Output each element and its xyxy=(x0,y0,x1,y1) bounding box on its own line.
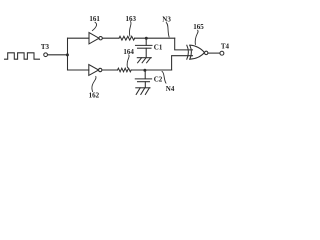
svg-text:T3: T3 xyxy=(41,43,50,51)
svg-text:164: 164 xyxy=(123,48,134,56)
svg-text:165: 165 xyxy=(193,23,204,31)
svg-text:N3: N3 xyxy=(162,16,171,24)
svg-text:161: 161 xyxy=(89,15,100,23)
svg-text:T4: T4 xyxy=(221,42,230,50)
svg-text:162: 162 xyxy=(89,91,100,99)
svg-text:N4: N4 xyxy=(166,85,175,93)
svg-text:163: 163 xyxy=(126,15,137,23)
svg-text:C2: C2 xyxy=(154,75,163,83)
svg-text:C1: C1 xyxy=(154,43,163,51)
